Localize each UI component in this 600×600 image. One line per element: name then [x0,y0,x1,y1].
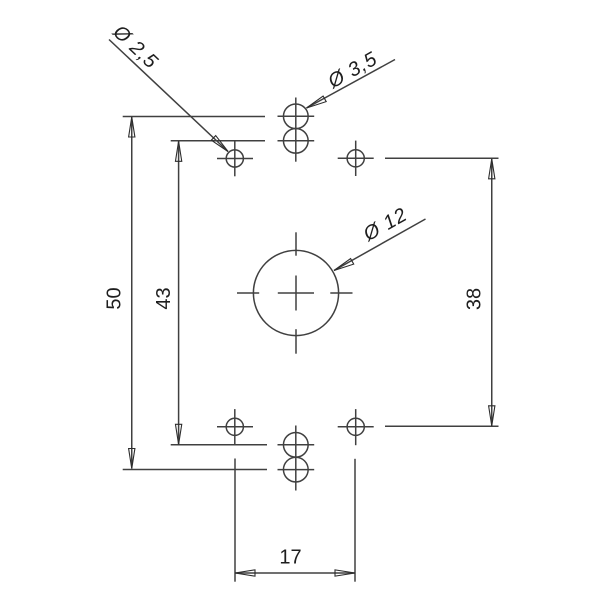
dimension 50 [104,117,268,470]
hole center Ø12 [237,232,353,353]
dimension 38 [385,158,499,426]
dimension 43 [153,141,267,445]
hole pair bottom Ø3.5 [278,426,315,491]
hole top-left Ø2.5 [217,141,253,177]
svg-text:43: 43 [153,287,175,309]
hole bottom-right Ø2.5 [338,409,374,445]
leader Ø12 [334,204,426,271]
leader Ø2.5 [108,20,228,151]
dimension 17 [235,459,355,582]
leader Ø3.5 [307,48,396,108]
hole bottom-left Ø2.5 [217,409,253,445]
hole top-right Ø2.5 [338,141,374,176]
svg-text:17: 17 [279,547,301,569]
svg-text:38: 38 [464,288,486,310]
svg-text:50: 50 [104,287,126,309]
hole pair top Ø3.5 [278,98,315,162]
